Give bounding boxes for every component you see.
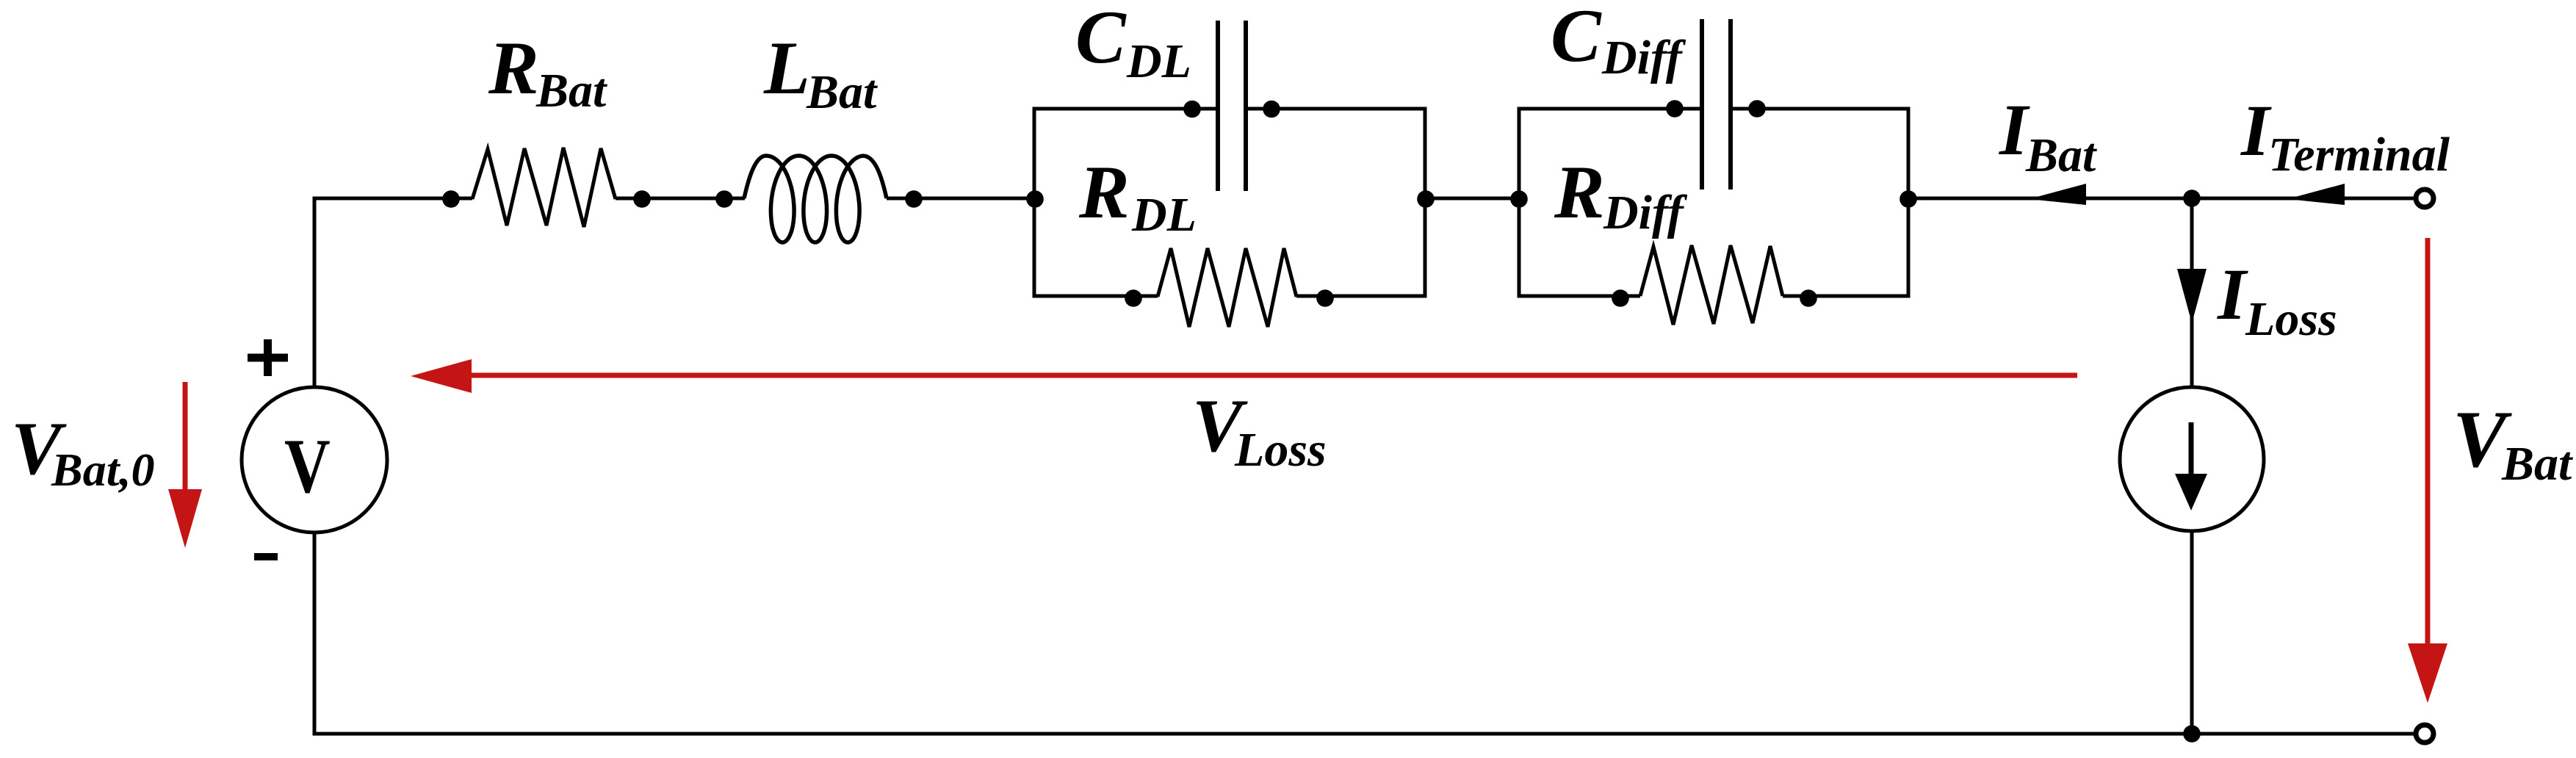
wire top-left horizontal bbox=[313, 197, 473, 201]
svg-text:V: V bbox=[284, 423, 331, 509]
node dot E (RC1 left) bbox=[1026, 190, 1044, 208]
RC network 2 box left edge bbox=[1518, 107, 1521, 298]
RC network 2 box right edge bbox=[1907, 107, 1911, 298]
node dot G (C_DL right) bbox=[1263, 101, 1280, 118]
node dot A (R_Bat left) bbox=[442, 190, 460, 208]
node dot L (C_Diff left) bbox=[1666, 100, 1684, 118]
RC network 1 bottom edge left segment bbox=[1033, 295, 1158, 298]
current source U1 inner arrow bbox=[2175, 422, 2207, 510]
svg-text:DL: DL bbox=[1131, 188, 1197, 242]
svg-text:R: R bbox=[488, 26, 539, 110]
label I_Loss bbox=[2217, 253, 2337, 346]
red arrow V_Loss bbox=[411, 359, 2077, 393]
wire RC2 to terminal bbox=[1908, 197, 2416, 201]
capacitor C_Diff left plate bbox=[1700, 19, 1704, 189]
label R_Diff bbox=[1554, 151, 1688, 239]
svg-text:L: L bbox=[763, 26, 810, 110]
label R_DL bbox=[1078, 151, 1197, 242]
label V_Loss bbox=[1192, 384, 1327, 477]
node dot C (L_Bat left) bbox=[715, 190, 733, 208]
resistor R_Bat bbox=[472, 148, 616, 227]
svg-text:Terminal: Terminal bbox=[2268, 128, 2450, 181]
label V_Bat right bbox=[2453, 394, 2573, 491]
svg-text:C: C bbox=[1551, 0, 1602, 78]
wire R_Bat to L_Bat bbox=[616, 197, 745, 201]
arrow I_Loss head bbox=[2177, 269, 2207, 323]
arrow I_Terminal head bbox=[2287, 184, 2345, 205]
resistor R_DL bbox=[1158, 248, 1296, 327]
label R_Bat bbox=[488, 26, 607, 118]
capacitor C_DL right plate bbox=[1244, 21, 1248, 191]
red arrow V_Bat bbox=[2408, 238, 2447, 703]
RC network 1 top edge left segment bbox=[1033, 107, 1219, 111]
label V_Bat,0 left bbox=[11, 407, 154, 496]
wire L_Bat to RC1 bbox=[887, 197, 1036, 201]
node dot J (RC1 right) bbox=[1417, 190, 1435, 208]
RC network 1 bottom edge right segment bbox=[1296, 295, 1427, 298]
svg-text:Loss: Loss bbox=[1234, 423, 1327, 477]
RC network 1 box right edge bbox=[1424, 107, 1427, 298]
resistor R_Diff bbox=[1640, 245, 1783, 325]
svg-text:I: I bbox=[2240, 90, 2272, 171]
svg-text:Bat: Bat bbox=[806, 65, 878, 119]
node dot K (RC2 left) bbox=[1510, 190, 1528, 208]
RC network 2 top edge right segment bbox=[1731, 107, 1911, 111]
node dot Q (loss branch junction) bbox=[2183, 189, 2201, 207]
svg-text:Loss: Loss bbox=[2245, 292, 2337, 346]
svg-text:Diff: Diff bbox=[1603, 186, 1688, 239]
RC network 1 top edge right segment bbox=[1246, 107, 1427, 111]
svg-text:Bat,0: Bat,0 bbox=[51, 444, 154, 496]
label C_Diff bbox=[1551, 0, 1686, 84]
RC network 2 bottom edge left segment bbox=[1518, 295, 1641, 298]
svg-text:Bat: Bat bbox=[2025, 129, 2097, 182]
arrow I_Bat head bbox=[2029, 184, 2086, 205]
voltage source V plus sign bbox=[248, 339, 288, 376]
wire loss branch vertical upper bbox=[2190, 198, 2194, 389]
node dot D (L_Bat right) bbox=[905, 190, 923, 208]
node dot B (R_Bat right) bbox=[633, 190, 651, 208]
node dot H (R_DL left) bbox=[1125, 289, 1142, 307]
label L_Bat bbox=[763, 26, 878, 119]
node dot F (C_DL left) bbox=[1183, 101, 1201, 118]
voltage source V minus sign bbox=[254, 553, 278, 560]
svg-text:DL: DL bbox=[1126, 35, 1191, 88]
wire loss branch vertical lower bbox=[2190, 530, 2194, 734]
label I_Bat bbox=[1999, 89, 2097, 182]
node dot R (bottom junction) bbox=[2183, 725, 2201, 743]
label I_Terminal bbox=[2240, 90, 2450, 181]
red arrow V_Bat,0 bbox=[168, 382, 202, 548]
svg-text:Diff: Diff bbox=[1601, 31, 1686, 84]
svg-text:I: I bbox=[2217, 253, 2248, 335]
RC network 1 box left edge bbox=[1033, 107, 1036, 298]
terminal node top right (open circle) bbox=[2416, 189, 2434, 207]
svg-text:Bat: Bat bbox=[535, 64, 607, 118]
voltage source V circle bbox=[242, 387, 387, 533]
svg-text:R: R bbox=[1078, 151, 1130, 234]
node dot N (R_Diff left) bbox=[1612, 289, 1629, 307]
node dot M (C_Diff right) bbox=[1748, 100, 1766, 118]
inductor L_Bat bbox=[744, 156, 887, 242]
wire bottom bbox=[313, 732, 2416, 736]
capacitor C_DL left plate bbox=[1216, 21, 1220, 191]
capacitor C_Diff right plate bbox=[1728, 19, 1733, 189]
wire RC1 to RC2 bbox=[1425, 197, 1519, 201]
wire left vertical upper bbox=[313, 197, 317, 389]
RC network 2 bottom edge right segment bbox=[1783, 295, 1911, 298]
terminal node bottom right (open circle) bbox=[2416, 725, 2434, 743]
svg-text:Bat: Bat bbox=[2501, 437, 2573, 491]
node dot O (R_Diff right) bbox=[1800, 289, 1817, 307]
current source U1 circle bbox=[2120, 387, 2264, 531]
node dot I (R_DL right) bbox=[1316, 289, 1334, 307]
label C_DL bbox=[1075, 0, 1191, 88]
wire left vertical lower bbox=[313, 532, 317, 734]
svg-text:R: R bbox=[1554, 151, 1605, 234]
RC network 2 top edge left segment bbox=[1518, 107, 1703, 111]
node dot P (RC2 right) bbox=[1899, 190, 1917, 208]
svg-text:C: C bbox=[1075, 0, 1127, 79]
